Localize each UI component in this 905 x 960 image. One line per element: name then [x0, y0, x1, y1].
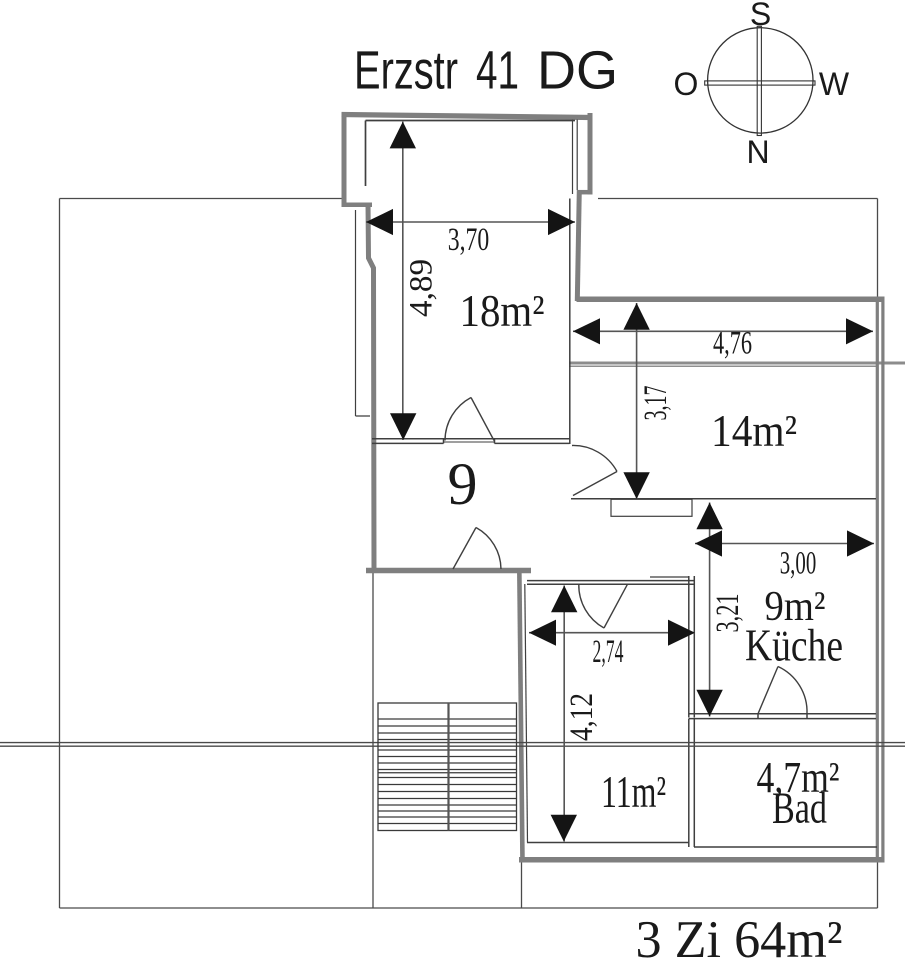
- svg-text:N: N: [746, 134, 769, 170]
- svg-text:3 Zi 64m²: 3 Zi 64m²: [636, 911, 843, 960]
- svg-text:3,70: 3,70: [448, 222, 490, 258]
- svg-text:41: 41: [476, 41, 519, 101]
- svg-text:Bad: Bad: [772, 784, 827, 833]
- svg-text:4,89: 4,89: [404, 259, 440, 317]
- svg-text:4,12: 4,12: [564, 693, 600, 741]
- svg-text:W: W: [819, 66, 850, 102]
- svg-text:2,74: 2,74: [593, 634, 624, 670]
- svg-text:3,17: 3,17: [638, 386, 674, 421]
- svg-text:18m²: 18m²: [460, 285, 545, 336]
- svg-text:11m²: 11m²: [601, 766, 666, 817]
- svg-text:9: 9: [448, 451, 478, 517]
- svg-text:3,00: 3,00: [780, 546, 817, 582]
- svg-text:S: S: [750, 0, 771, 32]
- svg-text:Küche: Küche: [745, 621, 843, 671]
- svg-text:DG: DG: [537, 41, 618, 101]
- svg-text:3,21: 3,21: [710, 594, 746, 633]
- svg-text:4,76: 4,76: [713, 326, 752, 362]
- svg-text:Erzstr: Erzstr: [354, 41, 458, 101]
- svg-text:14m²: 14m²: [711, 405, 797, 456]
- svg-text:O: O: [674, 66, 699, 102]
